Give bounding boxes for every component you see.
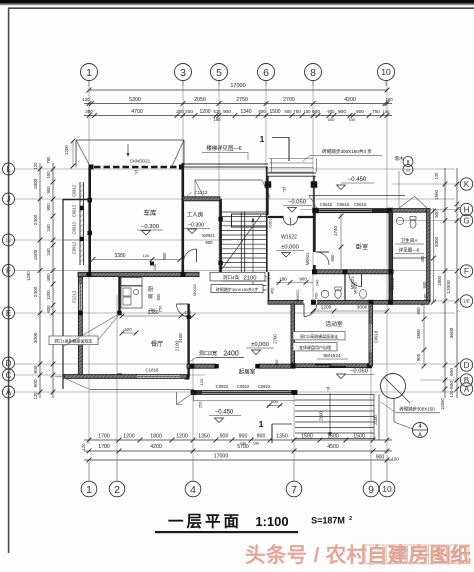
- svg-text:120: 120: [82, 97, 90, 102]
- svg-text:C0922: C0922: [258, 384, 271, 389]
- svg-text:300: 300: [85, 109, 93, 114]
- svg-text:4700: 4700: [131, 109, 143, 115]
- svg-text:车库: 车库: [144, 208, 158, 217]
- axis bubble left J: [3, 193, 15, 205]
- svg-text:3000: 3000: [33, 332, 39, 343]
- svg-text:洞口3宽: 洞口3宽: [199, 349, 217, 357]
- svg-text:600: 600: [33, 365, 39, 373]
- svg-text:760: 760: [314, 292, 319, 299]
- svg-text:上: 上: [266, 273, 271, 279]
- svg-text:5300: 5300: [129, 97, 141, 103]
- bathroom A divider: [392, 257, 427, 259]
- svg-text:780: 780: [46, 156, 51, 164]
- svg-text:C0922: C0922: [237, 384, 250, 389]
- svg-text:1: 1: [86, 67, 92, 79]
- stair landing outline: [232, 214, 268, 227]
- svg-text:3600: 3600: [449, 327, 455, 338]
- axis bubble left E: [3, 307, 15, 319]
- svg-text:4200: 4200: [344, 97, 356, 103]
- svg-text:C0912: C0912: [72, 221, 77, 234]
- window C0918 lines: [369, 324, 371, 352]
- svg-text:12000: 12000: [446, 280, 452, 294]
- axis bubble bottom 7: [286, 481, 302, 497]
- corridor annotation 洞口4: [210, 272, 265, 281]
- kitchen counter: [121, 286, 142, 308]
- bedroom dim 1740: [340, 214, 342, 269]
- column E-10: [388, 300, 393, 305]
- bottom dim line row2: [84, 450, 392, 452]
- axis bubble top 10: [378, 64, 395, 81]
- svg-text:900: 900: [156, 293, 161, 301]
- svg-text:10050: 10050: [440, 398, 445, 410]
- svg-text:3000: 3000: [357, 305, 368, 311]
- garage eave outline: [76, 139, 184, 141]
- drawing frame left border: [8, 8, 10, 553]
- axis line 10 vertical: [386, 81, 388, 462]
- svg-text:900: 900: [223, 109, 231, 115]
- svg-text:洞口4高: 洞口4高: [223, 274, 240, 281]
- dining east wall: [187, 304, 189, 377]
- svg-text:1340: 1340: [240, 109, 251, 115]
- axis line C: [14, 374, 205, 376]
- svg-text:1200: 1200: [123, 434, 135, 440]
- svg-text:120: 120: [33, 162, 38, 170]
- svg-text:A: A: [464, 385, 470, 394]
- svg-text:D: D: [464, 361, 470, 370]
- stair arrow: [252, 218, 254, 290]
- svg-text:900: 900: [239, 434, 248, 440]
- living eave corner: [176, 393, 178, 405]
- axis line 1 vertical: [88, 81, 90, 444]
- svg-text:2: 2: [349, 516, 352, 522]
- svg-text:活动室: 活动室: [325, 320, 343, 328]
- column F-10: [389, 269, 394, 274]
- svg-text:−0.050: −0.050: [350, 369, 368, 375]
- wall D opening gap: [216, 363, 258, 369]
- column A-mid: [292, 390, 297, 395]
- wall A hatched: [191, 391, 297, 395]
- left dim line inner: [52, 163, 54, 398]
- axis bubble right H: [460, 203, 472, 215]
- stair canopy eave: [195, 179, 262, 181]
- axis bubble top 5: [211, 64, 228, 81]
- svg-text:−0.450: −0.450: [215, 410, 234, 416]
- svg-text:C1212: C1212: [72, 290, 77, 303]
- column D-4: [185, 375, 190, 380]
- column H-8: [312, 208, 318, 214]
- svg-text:240: 240: [46, 224, 51, 232]
- axis line 1/J: [14, 239, 232, 241]
- column act-br: [367, 363, 372, 368]
- wall F stub: [213, 273, 222, 276]
- svg-text:120: 120: [143, 253, 150, 258]
- stair treads: [222, 211, 267, 213]
- column F-1: [87, 272, 92, 277]
- svg-text:−0.300: −0.300: [141, 224, 159, 230]
- svg-text:450: 450: [274, 359, 279, 366]
- svg-text:2100: 2100: [244, 276, 257, 282]
- top black banner bar: [0, 0, 474, 4]
- column act-bl: [291, 363, 296, 368]
- svg-text:厨: 厨: [148, 286, 153, 293]
- stair break line: [222, 215, 261, 269]
- axis bubble top 1: [81, 64, 98, 81]
- axis bubble right B: [460, 374, 472, 386]
- axis line 4 vertical: [192, 358, 194, 462]
- axis bubble right D: [460, 359, 472, 371]
- worker wall pilaster b: [218, 261, 223, 266]
- corridor annotation 踏步2: [211, 285, 263, 293]
- svg-text:900: 900: [46, 186, 51, 194]
- svg-text:G: G: [463, 216, 469, 225]
- activity room right dims: [423, 303, 425, 366]
- wall J hatched: [183, 197, 220, 201]
- svg-text:C0912: C0912: [72, 184, 77, 197]
- axis line 7 vertical: [293, 392, 295, 462]
- svg-text:C0615: C0615: [354, 202, 367, 207]
- svg-text:1350: 1350: [276, 434, 288, 440]
- svg-text:750: 750: [293, 109, 301, 114]
- stair hall top wall: [183, 163, 268, 165]
- garage right wall axis3: [182, 163, 185, 272]
- terrace steps right edge: [373, 394, 375, 440]
- svg-text:6: 6: [263, 67, 269, 79]
- garage wall pilaster b: [87, 231, 92, 236]
- svg-text:C: C: [6, 371, 12, 380]
- kitchen top counter: [121, 278, 142, 286]
- bedroom right wall axis10: [389, 212, 393, 301]
- svg-text:C0912: C0912: [390, 277, 395, 290]
- right dim line outer: [456, 168, 458, 398]
- svg-text:C1818: C1818: [146, 368, 159, 373]
- porch steps top: [269, 158, 313, 160]
- svg-text:10: 10: [382, 484, 392, 494]
- svg-text:1200: 1200: [199, 109, 210, 115]
- svg-text:2100: 2100: [178, 333, 183, 343]
- kitchen sink: [123, 288, 131, 296]
- svg-text:下: 下: [281, 187, 287, 194]
- stair west wall stub: [219, 272, 222, 281]
- svg-text:M0921: M0921: [305, 252, 310, 265]
- door M0921 hall-south: [349, 274, 362, 287]
- svg-text:120: 120: [449, 390, 454, 398]
- svg-text:卧室: 卧室: [356, 243, 368, 251]
- svg-text:±0.000: ±0.000: [281, 245, 299, 251]
- bottom dim line row1: [84, 439, 392, 441]
- svg-text:900: 900: [356, 109, 364, 115]
- veranda outer edge: [62, 199, 64, 389]
- svg-text:100: 100: [46, 171, 51, 179]
- window C1212 west lines: [78, 284, 80, 310]
- detail bubble 4/A: [413, 423, 428, 438]
- axis bubble top 3: [175, 64, 192, 81]
- patio eave diag left: [64, 378, 90, 390]
- wall bottom dining hatched: [64, 375, 187, 379]
- wall E hatched full: [268, 300, 429, 304]
- sliding door symbol: [315, 364, 332, 366]
- svg-text:变体键盘用户自理: 变体键盘用户自理: [299, 344, 331, 350]
- svg-text:120: 120: [81, 443, 86, 451]
- svg-text:450: 450: [270, 287, 275, 294]
- svg-text:1: 1: [86, 484, 92, 496]
- svg-text:600: 600: [285, 109, 293, 114]
- axis bubble left C: [3, 369, 15, 381]
- worker room right wall axis5: [219, 199, 222, 272]
- svg-text:900: 900: [33, 379, 39, 387]
- bathroom A sink: [396, 217, 403, 224]
- svg-text:3000: 3000: [434, 236, 439, 247]
- svg-text:1800: 1800: [33, 178, 39, 189]
- svg-text:下: 下: [325, 387, 330, 393]
- svg-text:600: 600: [259, 109, 267, 114]
- bathB toilet: [335, 290, 341, 299]
- svg-text:H: H: [464, 205, 470, 214]
- top overall dim line: [89, 89, 387, 91]
- svg-text:17000: 17000: [230, 83, 245, 89]
- corridor west wall: [268, 272, 270, 302]
- svg-text:1/E: 1/E: [463, 299, 470, 304]
- svg-text:9: 9: [368, 484, 374, 496]
- svg-text:详见图—6: 详见图—6: [399, 247, 420, 254]
- porch roof beam: [266, 172, 316, 174]
- svg-text:3380: 3380: [114, 253, 125, 259]
- axis bubble bottom 1: [81, 481, 97, 497]
- axis bubble right G: [460, 214, 472, 226]
- svg-text:1290: 1290: [26, 271, 31, 281]
- svg-text:餐厅: 餐厅: [151, 340, 163, 348]
- svg-text:1: 1: [259, 419, 264, 429]
- axis line 8 vertical: [312, 81, 314, 303]
- svg-text:600: 600: [449, 381, 455, 389]
- svg-text:1800: 1800: [437, 275, 442, 286]
- svg-text:900: 900: [449, 368, 455, 376]
- annex dim line: [433, 208, 435, 302]
- svg-text:240: 240: [46, 248, 51, 256]
- column F-3: [181, 272, 186, 277]
- svg-text:900: 900: [416, 353, 421, 361]
- bathB divider: [344, 274, 346, 301]
- svg-text:起居室: 起居室: [239, 368, 256, 376]
- title underline: [155, 531, 298, 533]
- svg-text:C0922: C0922: [216, 384, 229, 389]
- stair rail: [240, 212, 242, 272]
- svg-text:10: 10: [381, 67, 391, 77]
- svg-text:900: 900: [416, 307, 421, 315]
- activity right wall hatched: [369, 304, 373, 366]
- svg-text:落水: 落水: [395, 155, 404, 162]
- stair lower treads: [222, 276, 267, 278]
- svg-text:4: 4: [190, 484, 196, 496]
- door M0921 activity: [303, 304, 305, 317]
- svg-text:4500: 4500: [327, 444, 339, 450]
- garage wall pilaster a: [87, 198, 92, 203]
- svg-text:2700: 2700: [283, 97, 295, 103]
- svg-text:1200: 1200: [46, 290, 51, 300]
- terrace north edge: [194, 400, 296, 402]
- worker wall pilaster a: [218, 217, 223, 222]
- svg-text:900: 900: [220, 434, 229, 440]
- bathroom A toilet: [410, 220, 416, 228]
- svg-text:M0921: M0921: [295, 289, 300, 302]
- door M0921 bedroom: [316, 252, 329, 265]
- axis line B right side: [420, 379, 460, 381]
- svg-text:240: 240: [315, 279, 320, 286]
- axis bubble bottom 9: [363, 481, 379, 497]
- svg-text:C0615: C0615: [320, 202, 333, 207]
- svg-text:510: 510: [214, 109, 222, 114]
- svg-text:900: 900: [46, 203, 51, 211]
- svg-text:头条号 / 农村: 头条号 / 农村: [245, 543, 368, 567]
- svg-text:100: 100: [385, 97, 393, 102]
- axis bubble right 1/E: [460, 295, 472, 307]
- opening note 洞口2 box line2: [293, 343, 337, 351]
- garage door CKM3021 dashed: [94, 166, 179, 168]
- svg-text:H: H: [406, 168, 409, 173]
- svg-text:2700: 2700: [273, 334, 278, 344]
- axis bubble left D: [3, 357, 15, 369]
- opening note 洞口2 box: [293, 332, 345, 340]
- svg-text:5M1524: 5M1524: [323, 353, 341, 359]
- column E-8: [311, 300, 316, 305]
- svg-text:洞口2高刚横梁面观走: 洞口2高刚横梁面观走: [300, 333, 338, 339]
- svg-text:2750: 2750: [236, 97, 248, 103]
- column E-west: [78, 311, 83, 316]
- svg-text:A: A: [6, 388, 12, 397]
- svg-text:300: 300: [176, 109, 184, 114]
- svg-text:8: 8: [310, 67, 316, 79]
- bottom dim line row3: [84, 459, 392, 461]
- terrace steps: [295, 394, 374, 396]
- svg-text:420: 420: [124, 327, 132, 332]
- activity dims: [313, 310, 387, 312]
- dining top dim 3380: [122, 315, 181, 317]
- porch side walls: [267, 176, 269, 215]
- svg-text:房: 房: [148, 292, 153, 300]
- svg-text:120: 120: [33, 392, 38, 400]
- veranda mullion b: [80, 237, 84, 241]
- axis bubble right A: [460, 383, 472, 395]
- axis line E: [14, 312, 455, 314]
- axis bubble top 8: [305, 64, 322, 81]
- svg-text:120: 120: [199, 378, 204, 385]
- patio eave corner stub: [55, 376, 64, 378]
- axis bubble left 1/J: [3, 234, 15, 246]
- svg-text:A: A: [418, 433, 422, 439]
- svg-text:900: 900: [376, 455, 385, 461]
- svg-text:2050: 2050: [194, 97, 206, 103]
- svg-text:600: 600: [271, 399, 278, 404]
- svg-text:K: K: [464, 180, 470, 189]
- svg-text:900: 900: [257, 434, 266, 440]
- svg-text:1800: 1800: [416, 329, 421, 339]
- svg-text:C0912: C0912: [72, 204, 77, 217]
- axis line L: [14, 168, 455, 170]
- svg-text:1: 1: [260, 135, 265, 144]
- svg-text:2400: 2400: [223, 351, 239, 358]
- bedroom left wall axis8: [313, 212, 316, 252]
- svg-text:900: 900: [299, 277, 307, 282]
- svg-text:1200: 1200: [64, 145, 69, 155]
- axis line 5 vertical: [218, 81, 220, 272]
- column E-9: [369, 300, 374, 305]
- svg-text:±0.000: ±0.000: [251, 342, 269, 348]
- svg-text:5: 5: [216, 67, 222, 79]
- veranda mullion a: [80, 206, 84, 210]
- svg-text:1700: 1700: [98, 444, 110, 450]
- axis bubble left F: [3, 265, 15, 277]
- bathroom A right wall: [427, 209, 430, 302]
- svg-text:−0.450: −0.450: [348, 177, 367, 183]
- svg-text:S=187M: S=187M: [311, 516, 345, 526]
- wall F hatched left: [78, 272, 199, 276]
- svg-text:900: 900: [206, 240, 214, 245]
- veranda glazing wall: [79, 182, 81, 265]
- svg-text:150: 150: [349, 117, 356, 122]
- svg-text:1:100: 1:100: [255, 514, 288, 529]
- column axis1-L: [89, 165, 94, 170]
- axis line 2 vertical: [116, 295, 118, 462]
- detail leader to 4/A: [393, 399, 395, 423]
- svg-text:C0912: C0912: [72, 241, 77, 254]
- svg-text:一层平面: 一层平面: [168, 513, 242, 531]
- svg-text:1500: 1500: [434, 189, 439, 200]
- svg-text:600: 600: [434, 210, 439, 218]
- svg-text:700: 700: [185, 109, 193, 115]
- wall F bedroom hatched: [313, 270, 392, 274]
- axis line F: [14, 270, 455, 272]
- column axis3-L: [179, 165, 184, 170]
- activity left wall: [291, 304, 295, 366]
- garage dim 3380: [93, 259, 180, 261]
- kitchen left wall axis2: [118, 277, 120, 313]
- axis bubble left L: [3, 163, 15, 175]
- svg-text:1200: 1200: [321, 305, 332, 311]
- svg-text:工人房: 工人房: [187, 211, 204, 219]
- window C1818 lines: [137, 374, 180, 376]
- svg-text:250: 250: [198, 401, 203, 408]
- svg-text:450: 450: [420, 255, 425, 263]
- svg-text:900: 900: [312, 109, 320, 115]
- svg-text:900: 900: [330, 254, 335, 262]
- entry double door W1522: [284, 218, 291, 225]
- svg-text:M0921: M0921: [192, 283, 197, 296]
- svg-text:2: 2: [114, 484, 120, 496]
- right dim line inner: [444, 168, 446, 398]
- svg-text:−0.300: −0.300: [188, 223, 204, 229]
- svg-text:600: 600: [328, 109, 336, 114]
- column D-opening-left: [214, 364, 219, 369]
- stair right wall: [266, 167, 268, 272]
- porch bottom wall: [268, 216, 284, 218]
- svg-text:150: 150: [214, 117, 222, 122]
- svg-text:1/J: 1/J: [5, 238, 11, 243]
- axis bubble right F: [460, 265, 472, 277]
- axis line D: [14, 363, 455, 365]
- svg-text:2100: 2100: [373, 415, 378, 425]
- svg-text:M0921: M0921: [202, 233, 215, 238]
- axis bubble right K: [460, 178, 472, 190]
- svg-text:1800: 1800: [150, 434, 162, 440]
- axis line G right side: [396, 220, 460, 222]
- svg-text:600: 600: [328, 117, 335, 122]
- opening note 洞口1 box: [49, 336, 98, 345]
- svg-text:5700: 5700: [237, 444, 249, 450]
- svg-text:L: L: [6, 165, 11, 174]
- svg-text:J: J: [7, 195, 11, 204]
- axis bubble bottom 2: [109, 481, 125, 497]
- svg-text:C0918: C0918: [374, 330, 379, 343]
- axis bubble left A: [3, 386, 15, 398]
